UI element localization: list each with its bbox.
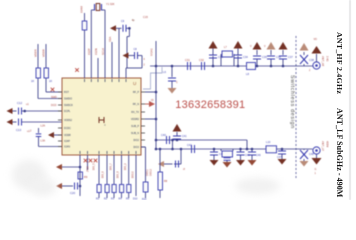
- wire B1: [79, 155, 81, 196]
- svg-text:DCDC: DCDC: [64, 127, 71, 130]
- branch left arrow: [180, 148, 183, 151]
- wire B7: [128, 155, 130, 185]
- svg-text:u1: u1: [26, 103, 29, 106]
- svg-text:C40: C40: [161, 133, 166, 137]
- svg-text:X24N: X24N: [64, 146, 70, 149]
- svg-text:2: 2: [309, 70, 311, 72]
- svg-text:C15: C15: [143, 15, 148, 19]
- wire J1 stub: [316, 54, 318, 62]
- branch cap C3: [114, 27, 122, 29]
- wire row D: [22, 121, 62, 123]
- branch cap C4: [134, 52, 136, 59]
- IC center pad symbol: [99, 117, 104, 123]
- inductor L8: [247, 63, 256, 70]
- svg-text:SCLK: SCLK: [101, 48, 105, 55]
- pale wire: [143, 67, 162, 89]
- page border line: [349, 0, 351, 200]
- watermark smudge 3: [235, 178, 280, 194]
- ground G46: [248, 160, 257, 166]
- svg-text:V: V: [250, 46, 252, 48]
- svg-text:VDDR: VDDR: [64, 134, 71, 137]
- wire J2 stub: [316, 155, 318, 159]
- wire net2 vertical: [45, 44, 47, 92]
- capacitor C31: [187, 62, 189, 70]
- wire LF upper: [156, 139, 247, 141]
- svg-text:DIO2: DIO2: [133, 139, 139, 142]
- no-connect X-top: [75, 68, 79, 72]
- svg-text:V: V: [264, 46, 266, 48]
- label ANT_LF SubGHz 490M: [335, 108, 344, 197]
- ground G47: [278, 159, 287, 165]
- resistor R2: [44, 68, 49, 78]
- capacitor C20: [74, 183, 76, 190]
- arrow A-L4: [110, 25, 116, 31]
- crystal Y1: [94, 4, 96, 11]
- shunt C34: [237, 65, 240, 68]
- svg-text:RF_N: RF_N: [133, 103, 140, 106]
- wire B3: [98, 155, 100, 185]
- svg-text:C38: C38: [309, 58, 314, 62]
- svg-text:R5: R5: [126, 198, 130, 201]
- shunt C37: [282, 65, 285, 68]
- svg-text:C: C: [176, 81, 178, 84]
- svg-text:4: 4: [144, 59, 146, 61]
- label ANT_HF 2.4GHz: [335, 32, 344, 94]
- svg-text:L8: L8: [246, 72, 249, 76]
- power arrow J1: [312, 46, 322, 54]
- wire B6: [121, 155, 123, 185]
- svg-text:L2A: L2A: [41, 124, 46, 128]
- arrow A-C11: [7, 119, 13, 125]
- DNP cap C38: [303, 64, 305, 66]
- power arrow P38: [300, 43, 309, 51]
- resistor R10: [143, 182, 148, 192]
- watermark smudge 1: [12, 160, 46, 190]
- svg-text:C20: C20: [70, 191, 76, 195]
- shunt C45: [239, 148, 242, 151]
- svg-text:DIO_6: DIO_6: [103, 171, 105, 178]
- resistor R6: [120, 185, 124, 193]
- arrow A-C10: [7, 108, 13, 114]
- svg-text:DIO_9: DIO_9: [125, 163, 127, 170]
- svg-text:1K: 1K: [49, 79, 52, 83]
- watermark smudge 2: [30, 178, 56, 196]
- svg-text:L10: L10: [266, 140, 271, 144]
- svg-text:L3A: L3A: [41, 139, 46, 143]
- wire row C: [22, 110, 62, 112]
- svg-text:DIO_7: DIO_7: [111, 163, 113, 170]
- crystal Y1 loop: [90, 10, 92, 78]
- svg-text:C37: C37: [288, 55, 293, 59]
- resistor R3: [97, 185, 101, 193]
- inductor L7: [220, 54, 222, 66]
- arrow A-L2: [56, 164, 62, 170]
- svg-text:R10: R10: [142, 198, 147, 200]
- resistor R4: [105, 185, 109, 193]
- svg-text:RX_TX: RX_TX: [131, 111, 139, 114]
- arrow A-L5: [123, 53, 129, 59]
- svg-text:1: 1: [315, 172, 317, 175]
- wire row F: [39, 146, 63, 148]
- svg-text:RF24G: RF24G: [151, 48, 154, 56]
- svg-text:VD: VD: [314, 38, 318, 41]
- wire B2: [87, 155, 89, 170]
- DNP cap C48: [303, 149, 305, 150]
- svg-text:433M: 433M: [326, 141, 329, 147]
- capacitor C10: [18, 108, 20, 115]
- ground G48: [300, 161, 309, 167]
- capacitor C16: [38, 128, 40, 133]
- power arrow P37: [279, 42, 288, 50]
- svg-text:JTCK: JTCK: [88, 166, 90, 172]
- shunt C43: [213, 148, 216, 151]
- inductor L1: [82, 21, 87, 30]
- IC U1 body: [62, 78, 141, 155]
- svg-text:Y1 32K: Y1 32K: [106, 2, 115, 6]
- capacitor C42: [191, 145, 193, 153]
- shunt C33: [212, 65, 215, 68]
- svg-text:G: G: [315, 168, 317, 171]
- wire P1 with inductor: [84, 30, 86, 78]
- svg-text:C13: C13: [16, 128, 22, 132]
- annotation Switchless design: [289, 75, 295, 129]
- power arrow P34: [234, 41, 243, 49]
- no-connect X2: [84, 159, 88, 163]
- svg-text:C32: C32: [199, 58, 204, 62]
- svg-text:C9: C9: [121, 20, 125, 23]
- svg-text:VDDS2: VDDS2: [64, 119, 73, 122]
- antenna J1 connector: [313, 62, 320, 69]
- capacitor C41: [173, 135, 181, 137]
- resistor R5: [112, 185, 116, 193]
- wire HF main: [150, 65, 313, 67]
- svg-text:2.4G: 2.4G: [326, 56, 329, 61]
- component small: [78, 172, 83, 179]
- svg-text:4p: 4p: [132, 19, 135, 22]
- svg-text:DIO3: DIO3: [133, 146, 139, 149]
- ground G44: [223, 162, 232, 168]
- power arrow P36: [267, 42, 276, 50]
- wire pin92: [145, 91, 156, 93]
- shunt C36: [270, 65, 273, 68]
- phone number watermark: [175, 99, 245, 111]
- wire LF main: [156, 148, 313, 150]
- svg-text:C41: C41: [182, 135, 187, 138]
- no-connect X3: [89, 159, 93, 163]
- wire join2: [172, 140, 174, 149]
- svg-text:VDDR: VDDR: [42, 49, 46, 57]
- svg-text:SUB_N: SUB_N: [131, 132, 139, 135]
- arrow A-L6: [158, 161, 164, 167]
- svg-text:VDDR2: VDDR2: [131, 118, 140, 121]
- svg-text:X24M: X24M: [80, 6, 84, 13]
- svg-text:R8: R8: [164, 180, 168, 183]
- shunt C46: [251, 148, 254, 151]
- svg-text:SWD: SWD: [51, 96, 57, 99]
- wire pin119: [145, 118, 156, 120]
- wire LF join: [246, 140, 248, 149]
- resistor R7: [127, 185, 131, 193]
- svg-text:D10: D10: [133, 198, 138, 201]
- shunt C30: [171, 65, 174, 68]
- svg-text:DCPL: DCPL: [64, 110, 71, 113]
- power arrow P35: [253, 42, 262, 50]
- svg-text:SWDCK: SWDCK: [64, 104, 73, 107]
- wire B5: [113, 155, 115, 185]
- wire P4b: [97, 58, 99, 78]
- svg-text:RST: RST: [64, 91, 69, 94]
- shunt C35: [256, 65, 259, 68]
- shunt C47: [281, 148, 284, 151]
- svg-text:L6: L6: [163, 70, 166, 74]
- IC top pin numbers: [84, 79, 86, 82]
- svg-text:DIO12: DIO12: [150, 168, 153, 176]
- svg-text:C42: C42: [187, 144, 192, 147]
- connector arrow right: [149, 101, 155, 107]
- svg-text:C34: C34: [243, 55, 248, 59]
- svg-text:C35: C35: [262, 55, 267, 59]
- svg-text:U: U: [133, 81, 136, 86]
- inductor L9: [220, 149, 222, 151]
- no-connect X4: [94, 159, 98, 163]
- svg-text:N: N: [182, 168, 185, 170]
- wire B4: [106, 155, 108, 185]
- wire B8: [135, 155, 137, 196]
- wire B8b: [141, 146, 146, 148]
- power arrow P40: [173, 124, 182, 132]
- wire P5: [111, 42, 113, 78]
- capacitor C11: [18, 119, 20, 126]
- dashed boundary: [295, 36, 297, 178]
- svg-text:DIO_5: DIO_5: [94, 163, 96, 170]
- ground G30: [168, 88, 177, 94]
- capacitor C32: [201, 62, 203, 70]
- inductor L10: [266, 146, 277, 153]
- svg-text:1K: 1K: [31, 79, 34, 83]
- svg-text:L7: L7: [224, 46, 227, 49]
- svg-text:DCD: DCD: [51, 104, 57, 107]
- wire net1 vertical: [37, 44, 39, 99]
- svg-text:SUB_P: SUB_P: [131, 125, 139, 128]
- svg-text:C12: C12: [17, 101, 23, 105]
- svg-text:C47: C47: [277, 156, 282, 159]
- wire B9: [159, 149, 161, 172]
- svg-text:ANT_HF: ANT_HF: [321, 56, 325, 67]
- svg-text:X24P: X24P: [64, 140, 70, 143]
- capacitor C40: [166, 136, 168, 144]
- svg-text:DIO10: DIO10: [133, 171, 135, 178]
- svg-text:DIO_8: DIO_8: [118, 171, 120, 178]
- no-connect X1: [51, 88, 55, 92]
- svg-text:X32P: X32P: [87, 48, 91, 55]
- svg-text:SDA: SDA: [108, 36, 112, 42]
- wire P7 corner: [125, 68, 127, 78]
- svg-text:2: 2: [30, 130, 32, 133]
- svg-text:C46: C46: [256, 154, 261, 157]
- wire trunk x156: [155, 41, 157, 149]
- antenna J2 connector: [313, 147, 320, 154]
- svg-text:ANT_LF: ANT_LF: [321, 141, 325, 151]
- svg-text:C8: C8: [134, 48, 138, 51]
- svg-text:ID: ID: [151, 99, 154, 102]
- svg-text:2: 2: [144, 65, 146, 67]
- resistor R8: [158, 172, 163, 190]
- shunt C44: [226, 157, 228, 160]
- svg-text:R9: R9: [84, 175, 88, 179]
- svg-text:C31: C31: [185, 58, 190, 62]
- arrow A-L1: [48, 132, 54, 138]
- IC bottom pin numbers: [79, 151, 81, 154]
- ground GJ2: [312, 158, 322, 165]
- ground G43: [210, 160, 219, 166]
- ground G45: [236, 160, 245, 166]
- resistor R1: [36, 68, 41, 78]
- svg-text:X32N: X32N: [94, 48, 98, 55]
- svg-text:C48: C48: [309, 153, 314, 156]
- power arrow P33: [209, 41, 218, 49]
- wire corner down: [128, 28, 130, 36]
- svg-text:VDDS: VDDS: [34, 49, 38, 57]
- svg-text:RF_P: RF_P: [133, 91, 140, 94]
- svg-text:SWDIO: SWDIO: [64, 98, 72, 101]
- arrow A-L3: [56, 183, 62, 189]
- wire P6: [118, 28, 120, 78]
